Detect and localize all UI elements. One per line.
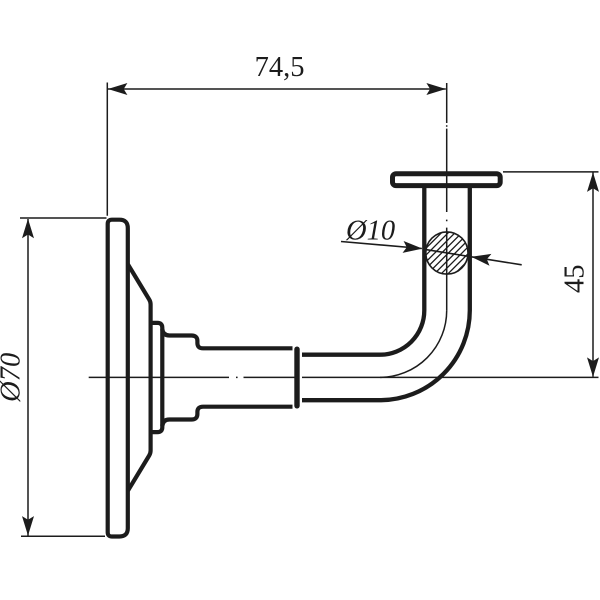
leader right arrow bbox=[470, 251, 491, 266]
dimension 74,5 line bbox=[108, 88, 446, 90]
dimension 74,5 arrow right bbox=[426, 83, 446, 95]
dimension 74,5 extension line left bbox=[106, 83, 108, 216]
ring B boss top profile bbox=[162, 329, 292, 348]
leader line Ø10 bbox=[341, 242, 422, 249]
dimension 45 extension line top bbox=[503, 171, 599, 173]
svg-text:45: 45 bbox=[560, 264, 591, 293]
dimension 45 arrow up bbox=[587, 172, 599, 192]
wall plate bbox=[108, 220, 128, 537]
dimension Ø70 arrow down bbox=[22, 516, 34, 536]
ring B boss bottom profile bbox=[162, 407, 292, 426]
section circle outline bbox=[426, 232, 468, 274]
svg-text:Ø10: Ø10 bbox=[345, 215, 395, 246]
section circle white fill bbox=[426, 232, 468, 274]
cone from plate to hub (top diagonal, end face, bottom diagonal) bbox=[128, 265, 151, 491]
stem joint face bbox=[294, 349, 299, 406]
dimension Ø70 extension line bottom bbox=[21, 535, 105, 537]
leader Ø10 arrow bbox=[403, 241, 423, 255]
dimension Ø70 extension line top bbox=[20, 217, 107, 219]
dimension 45 line bbox=[592, 173, 594, 377]
tube inner edge (top) and left wall bbox=[302, 187, 424, 355]
svg-text:Ø70: Ø70 bbox=[0, 353, 27, 403]
tube outer edge (bottom) and right wall bbox=[302, 187, 470, 401]
dimension 45 extension line bottom (centerline extension) bbox=[302, 376, 599, 378]
centerline bend arc bbox=[380, 310, 447, 377]
dimension 45 arrow down bbox=[587, 357, 599, 377]
dimension 74,5 arrow left bbox=[108, 83, 128, 95]
vertical centerline (dash-dot) bbox=[446, 83, 448, 310]
horizontal centerline (dash-dot) bbox=[89, 376, 296, 378]
top flange bbox=[393, 174, 501, 186]
dimension Ø70 arrow up bbox=[22, 219, 34, 239]
section hatch 45deg bbox=[399, 231, 497, 275]
ring A (collar) bbox=[151, 323, 163, 432]
dimension Ø70 line bbox=[27, 219, 29, 536]
leader line through section to right bbox=[424, 249, 522, 265]
svg-text:74,5: 74,5 bbox=[255, 52, 305, 83]
